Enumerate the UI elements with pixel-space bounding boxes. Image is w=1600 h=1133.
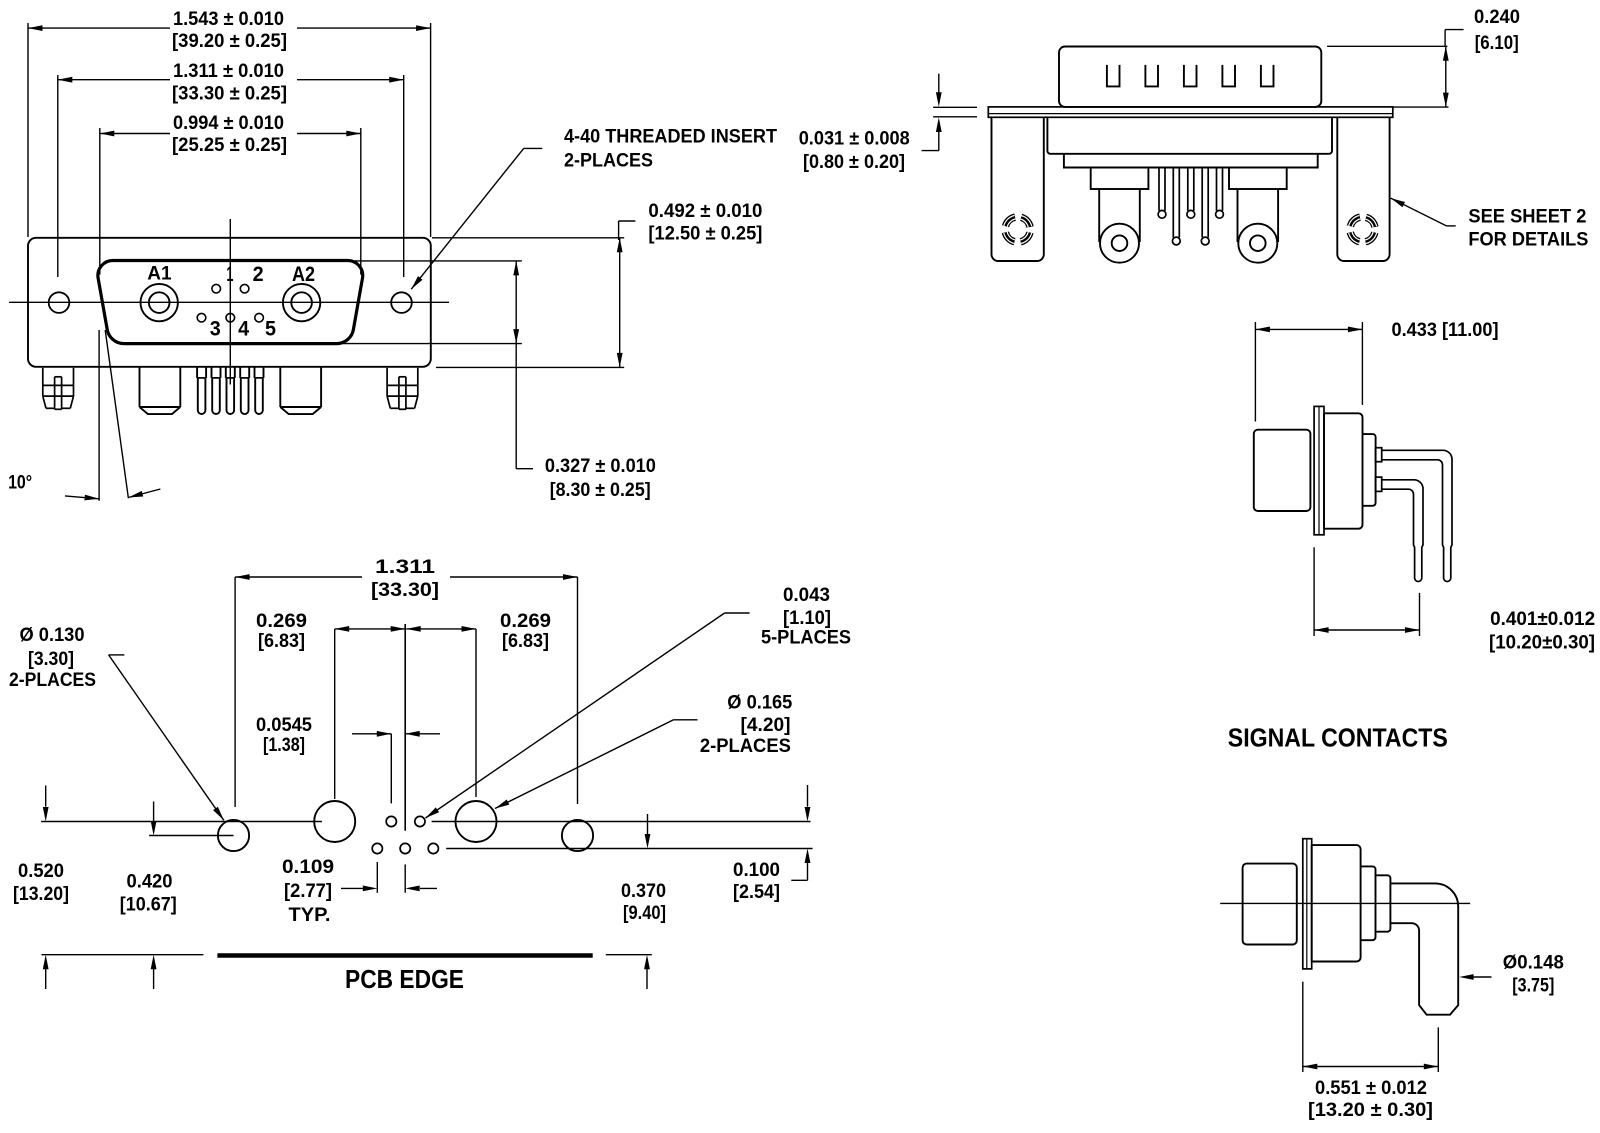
svg-text:0.100: 0.100 <box>733 860 780 881</box>
svg-text:TYP.: TYP. <box>289 905 331 926</box>
svg-text:Ø0.148: Ø0.148 <box>1503 953 1564 974</box>
svg-text:[6.83]: [6.83] <box>258 631 305 652</box>
svg-text:A2: A2 <box>292 263 315 286</box>
svg-text:10°: 10° <box>8 472 32 493</box>
svg-text:[39.20 ± 0.25]: [39.20 ± 0.25] <box>172 31 287 52</box>
svg-text:[2.54]: [2.54] <box>733 882 780 903</box>
svg-text:4-40 THREADED INSERT: 4-40 THREADED INSERT <box>564 127 777 148</box>
svg-text:[12.50 ± 0.25]: [12.50 ± 0.25] <box>648 224 762 245</box>
svg-text:4: 4 <box>238 318 249 341</box>
svg-text:[6.10]: [6.10] <box>1475 33 1519 54</box>
svg-text:5: 5 <box>265 318 276 341</box>
svg-text:1.311 ± 0.010: 1.311 ± 0.010 <box>173 61 284 82</box>
svg-text:0.994 ± 0.010: 0.994 ± 0.010 <box>173 113 284 134</box>
svg-text:A1: A1 <box>147 264 172 285</box>
svg-text:[3.75]: [3.75] <box>1512 975 1554 996</box>
svg-text:0.0545: 0.0545 <box>256 715 312 736</box>
svg-text:[13.20 ± 0.30]: [13.20 ± 0.30] <box>1308 1100 1433 1121</box>
svg-text:0.433 [11.00]: 0.433 [11.00] <box>1392 320 1499 341</box>
svg-text:[2.77]: [2.77] <box>284 881 332 902</box>
svg-text:0.370: 0.370 <box>621 881 666 902</box>
svg-text:0.109: 0.109 <box>282 857 334 878</box>
svg-text:SIGNAL CONTACTS: SIGNAL CONTACTS <box>1228 723 1448 753</box>
svg-text:0.520: 0.520 <box>18 861 64 882</box>
svg-text:5-PLACES: 5-PLACES <box>761 628 851 649</box>
svg-text:[1.38]: [1.38] <box>263 735 305 756</box>
svg-text:2-PLACES: 2-PLACES <box>9 670 96 691</box>
svg-text:[1.10]: [1.10] <box>783 608 831 629</box>
svg-text:2: 2 <box>253 263 264 286</box>
svg-text:Ø 0.165: Ø 0.165 <box>727 693 792 714</box>
svg-text:PCB EDGE: PCB EDGE <box>345 964 464 994</box>
svg-text:2-PLACES: 2-PLACES <box>700 736 791 757</box>
svg-text:[4.20]: [4.20] <box>741 715 791 736</box>
svg-text:[33.30 ± 0.25]: [33.30 ± 0.25] <box>172 84 287 105</box>
svg-text:1.311: 1.311 <box>375 557 436 578</box>
svg-text:FOR DETAILS: FOR DETAILS <box>1468 229 1588 250</box>
svg-text:[8.30 ± 0.25]: [8.30 ± 0.25] <box>550 480 651 501</box>
svg-text:[10.20±0.30]: [10.20±0.30] <box>1489 633 1595 654</box>
svg-text:0.401±0.012: 0.401±0.012 <box>1490 609 1595 630</box>
svg-text:3: 3 <box>210 318 221 341</box>
svg-text:2-PLACES: 2-PLACES <box>564 150 653 171</box>
svg-text:[6.83]: [6.83] <box>502 631 549 652</box>
svg-text:[0.80 ± 0.20]: [0.80 ± 0.20] <box>803 152 905 173</box>
svg-text:0.269: 0.269 <box>256 611 307 632</box>
svg-text:0.240: 0.240 <box>1474 7 1520 28</box>
svg-text:0.551 ± 0.012: 0.551 ± 0.012 <box>1315 1078 1427 1099</box>
svg-text:0.327 ± 0.010: 0.327 ± 0.010 <box>545 456 656 477</box>
svg-text:0.492 ± 0.010: 0.492 ± 0.010 <box>648 201 762 222</box>
svg-text:0.031 ± 0.008: 0.031 ± 0.008 <box>799 129 910 150</box>
svg-text:[13.20]: [13.20] <box>13 884 69 905</box>
svg-text:1.543 ± 0.010: 1.543 ± 0.010 <box>173 9 284 30</box>
svg-text:SEE SHEET 2: SEE SHEET 2 <box>1468 206 1586 227</box>
svg-text:[33.30]: [33.30] <box>371 580 439 601</box>
svg-text:1: 1 <box>226 263 233 286</box>
svg-text:[9.40]: [9.40] <box>623 903 666 924</box>
svg-text:[25.25 ± 0.25]: [25.25 ± 0.25] <box>172 135 287 156</box>
svg-text:[10.67]: [10.67] <box>120 895 177 916</box>
svg-text:0.420: 0.420 <box>127 872 173 893</box>
svg-text:[3.30]: [3.30] <box>28 649 74 670</box>
svg-text:Ø 0.130: Ø 0.130 <box>20 625 85 646</box>
svg-text:0.043: 0.043 <box>783 585 830 606</box>
svg-text:0.269: 0.269 <box>500 611 551 632</box>
